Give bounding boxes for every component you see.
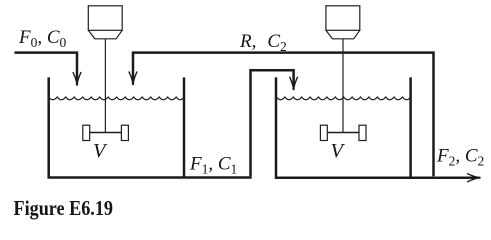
tank 2 right wall [409,77,412,177]
tank 2 walls and bottom with outlet line [276,77,475,177]
tank 1 right wall [183,77,186,177]
arrowhead recycle into tank 1 [129,72,137,84]
impeller 1 [83,125,129,140]
arrowhead feed into tank 1 [73,73,81,85]
wire recycle pipe R horizontal and left down-leg [133,53,434,177]
tank 1 walls and bottom [49,77,252,177]
svg-text:F2, C2: F2, C2 [436,146,484,169]
water surface tank 1 [49,97,184,100]
impeller 2 [320,125,366,140]
water surface tank 2 [277,97,411,100]
wire transfer pipe tank1 to tank2 [251,70,294,176]
wire feed pipe F0 [15,53,78,81]
svg-text:V: V [93,140,108,162]
svg-text:F1, C1: F1, C1 [189,154,237,177]
svg-text:Figure E6.19: Figure E6.19 [14,196,114,220]
shaft 1 [104,39,106,133]
svg-text:R,C2: R,C2 [239,31,287,54]
motor M2 [326,6,360,133]
arrowhead transfer into tank 2 [290,77,298,89]
svg-text:V: V [331,140,346,162]
motor M1 [88,6,122,133]
arrowhead outlet F2 [468,174,480,182]
shaft 2 [342,39,344,133]
svg-text:F0, C0: F0, C0 [18,27,67,50]
